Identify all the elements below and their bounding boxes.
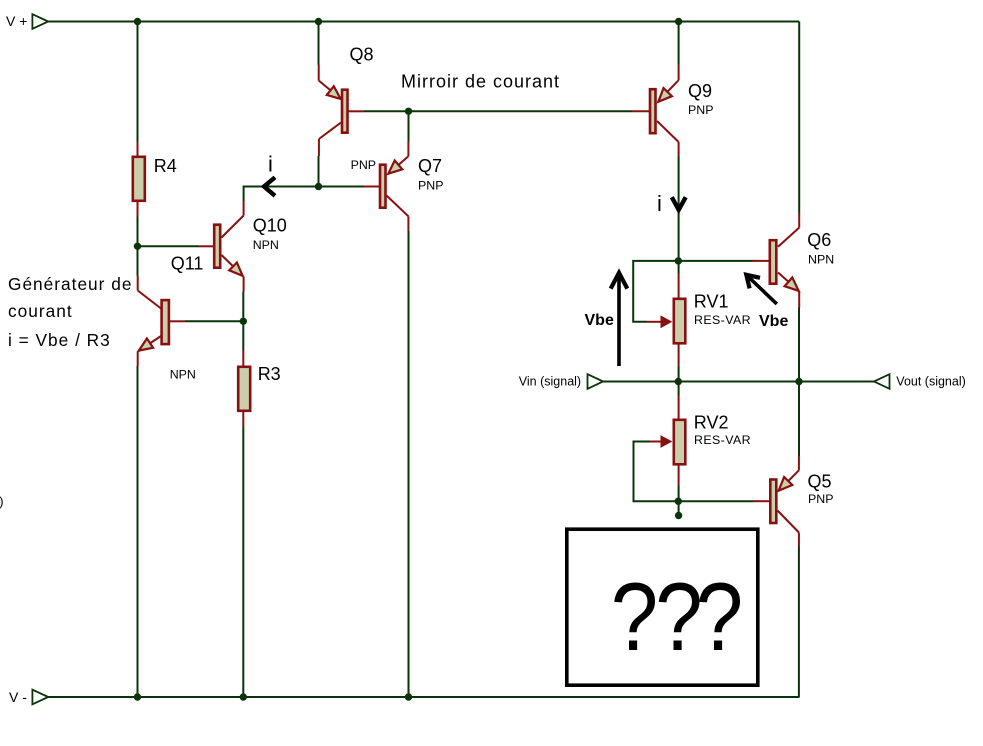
wire node A down to Q11 collector (137, 246, 139, 275)
transistor Q11 (138, 253, 204, 381)
wire node F to node G (678, 381, 799, 383)
wire node E to Q6 base (678, 260, 752, 262)
node D (Q8 base / Q7 emitter / Q9 base) (405, 108, 412, 115)
wire Q6 emitter to node G (798, 308, 800, 382)
svg-text:): ) (0, 494, 4, 509)
node bottom rail x=137.5 (134, 693, 141, 700)
svg-text:?: ? (696, 563, 743, 671)
transistor Q7 (351, 142, 444, 232)
wire bottom rail (48, 696, 799, 698)
wire Q8 collector to node C (318, 156, 320, 187)
wire top rail (48, 21, 799, 23)
arrow Vbe up (left) (611, 273, 628, 366)
wire node E left + down to RV1 wiper (633, 261, 678, 322)
wire Q9 collector down to node E (678, 157, 680, 262)
svg-text:Vin (signal): Vin (signal) (519, 375, 581, 389)
transistor Q5 (753, 456, 833, 547)
box ??? (unknown stage) (567, 529, 758, 685)
svg-text:i = Vbe / R3: i = Vbe / R3 (8, 330, 111, 350)
wire Q8 base to node D (364, 110, 409, 112)
terminal Vin (signal) (519, 374, 603, 389)
wire node D down to Q7 emitter (408, 111, 410, 141)
node box terminal dot (675, 512, 682, 519)
wire R3 to bottom rail (242, 427, 244, 697)
svg-text:PNP: PNP (688, 103, 713, 117)
wire node A to Q10 base (138, 245, 199, 247)
svg-text:Q11: Q11 (171, 253, 204, 273)
node top rail x=678.6 (675, 18, 682, 25)
wire Q5 collector to bottom rail (798, 547, 800, 698)
svg-text:Q10: Q10 (253, 215, 287, 235)
svg-text:R4: R4 (154, 156, 177, 176)
node H (RV2 / wiper / Q5 base / box) (675, 498, 682, 505)
svg-text:i: i (268, 152, 273, 177)
arrow Vbe diagonal (right) (746, 275, 777, 304)
terminal V- (9, 689, 48, 705)
transistor Q8 (319, 45, 374, 156)
node F (Vin / RV1 / RV2) (675, 378, 682, 385)
wire node G down to Q5 emitter (798, 382, 800, 457)
svg-text:Q5: Q5 (808, 471, 832, 491)
svg-text:?: ? (611, 563, 658, 671)
wire node D to Q9 base (409, 110, 633, 112)
transistor Q10 (199, 201, 287, 292)
resistor R3 (238, 351, 281, 428)
svg-text:RV2: RV2 (694, 413, 729, 433)
wire Q10 collector to node C (current i wire) (244, 187, 319, 202)
svg-text:Générateur de: Générateur de (8, 274, 132, 294)
label Generateur de courant (8, 274, 132, 350)
svg-text:Q8: Q8 (350, 45, 374, 65)
terminal Vout (signal) (874, 374, 966, 389)
svg-text:Q6: Q6 (807, 230, 831, 250)
wire node C to Q7 base (319, 186, 365, 188)
node B (Q11 base / Q10 emitter / R3) (240, 318, 247, 325)
wire top rail to Q9 emitter (678, 22, 680, 65)
svg-text:V +: V + (6, 13, 27, 29)
svg-text:Vbe: Vbe (585, 312, 614, 329)
svg-text:Vout (signal): Vout (signal) (896, 375, 965, 389)
wire node E down to RV1 (678, 261, 680, 274)
potentiometer RV2 (650, 396, 751, 486)
wire R4 to node A (137, 217, 139, 247)
svg-text:PNP: PNP (351, 158, 376, 172)
svg-text:PNP: PNP (808, 492, 833, 506)
svg-text:PNP: PNP (418, 178, 443, 192)
wire top rail to Q8 emitter (318, 22, 320, 65)
wire node H stub down to box (678, 501, 680, 514)
svg-text:Vbe: Vbe (759, 313, 788, 330)
wire node G to Vout (799, 381, 874, 383)
wire RV2 wiper loop to node H (634, 442, 679, 502)
node G (Q6 emitter / Q5 emitter / Vout) (795, 378, 802, 385)
wire Vin to node F (603, 381, 678, 383)
potentiometer RV1 (647, 274, 751, 367)
svg-text:R3: R3 (258, 364, 281, 384)
wire RV1 to node F (678, 366, 680, 382)
wire top rail right corner down to Q6 collector (798, 22, 800, 213)
wire Q11 base to node B (185, 320, 243, 322)
terminal V+ (6, 13, 48, 29)
wire node B to R3 (242, 321, 244, 350)
svg-text:Mirroir de courant: Mirroir de courant (401, 72, 560, 92)
svg-text:Q9: Q9 (688, 81, 712, 101)
transistor Q9 (632, 65, 713, 157)
svg-text:NPN: NPN (170, 368, 196, 382)
transistor Q6 (753, 213, 835, 308)
node bottom rail x=243.3 (240, 693, 247, 700)
node top rail x=318.5 (315, 18, 322, 25)
svg-text:RES-VAR: RES-VAR (694, 313, 751, 327)
node E (Q9 collector / Q6 base / RV1 top / wiper loop) (675, 257, 682, 264)
svg-text:Q7: Q7 (418, 156, 442, 176)
wire node H to Q5 base (678, 500, 753, 502)
current arrow i (left chevron) (264, 177, 275, 196)
node A (R4 / Q10 base / Q11 collector) (134, 243, 141, 250)
svg-text:i: i (657, 191, 662, 216)
svg-text:courant: courant (8, 301, 73, 321)
wire Q11 emitter to bottom rail (137, 366, 139, 697)
svg-text:NPN: NPN (808, 253, 834, 267)
wire RV2 bottom to node H (678, 486, 680, 502)
wire Q7 collector to bottom rail (408, 231, 410, 697)
svg-text:NPN: NPN (253, 238, 279, 252)
svg-text:V -: V - (9, 689, 27, 705)
wire Q10 emitter to node B (242, 292, 244, 322)
node bottom rail x=408.5 (405, 693, 412, 700)
resistor R4 (133, 142, 177, 217)
svg-text:RV1: RV1 (694, 292, 729, 312)
current arrow i (down chevron) (672, 197, 686, 210)
svg-text:RES-VAR: RES-VAR (694, 433, 751, 447)
node top rail x=137.5 (134, 18, 141, 25)
node C (Q8 collector / Q7 base / wire to Q10) (315, 183, 322, 190)
wire V+ rail to R4 (137, 22, 139, 142)
wire node F down to RV2 (678, 382, 680, 396)
